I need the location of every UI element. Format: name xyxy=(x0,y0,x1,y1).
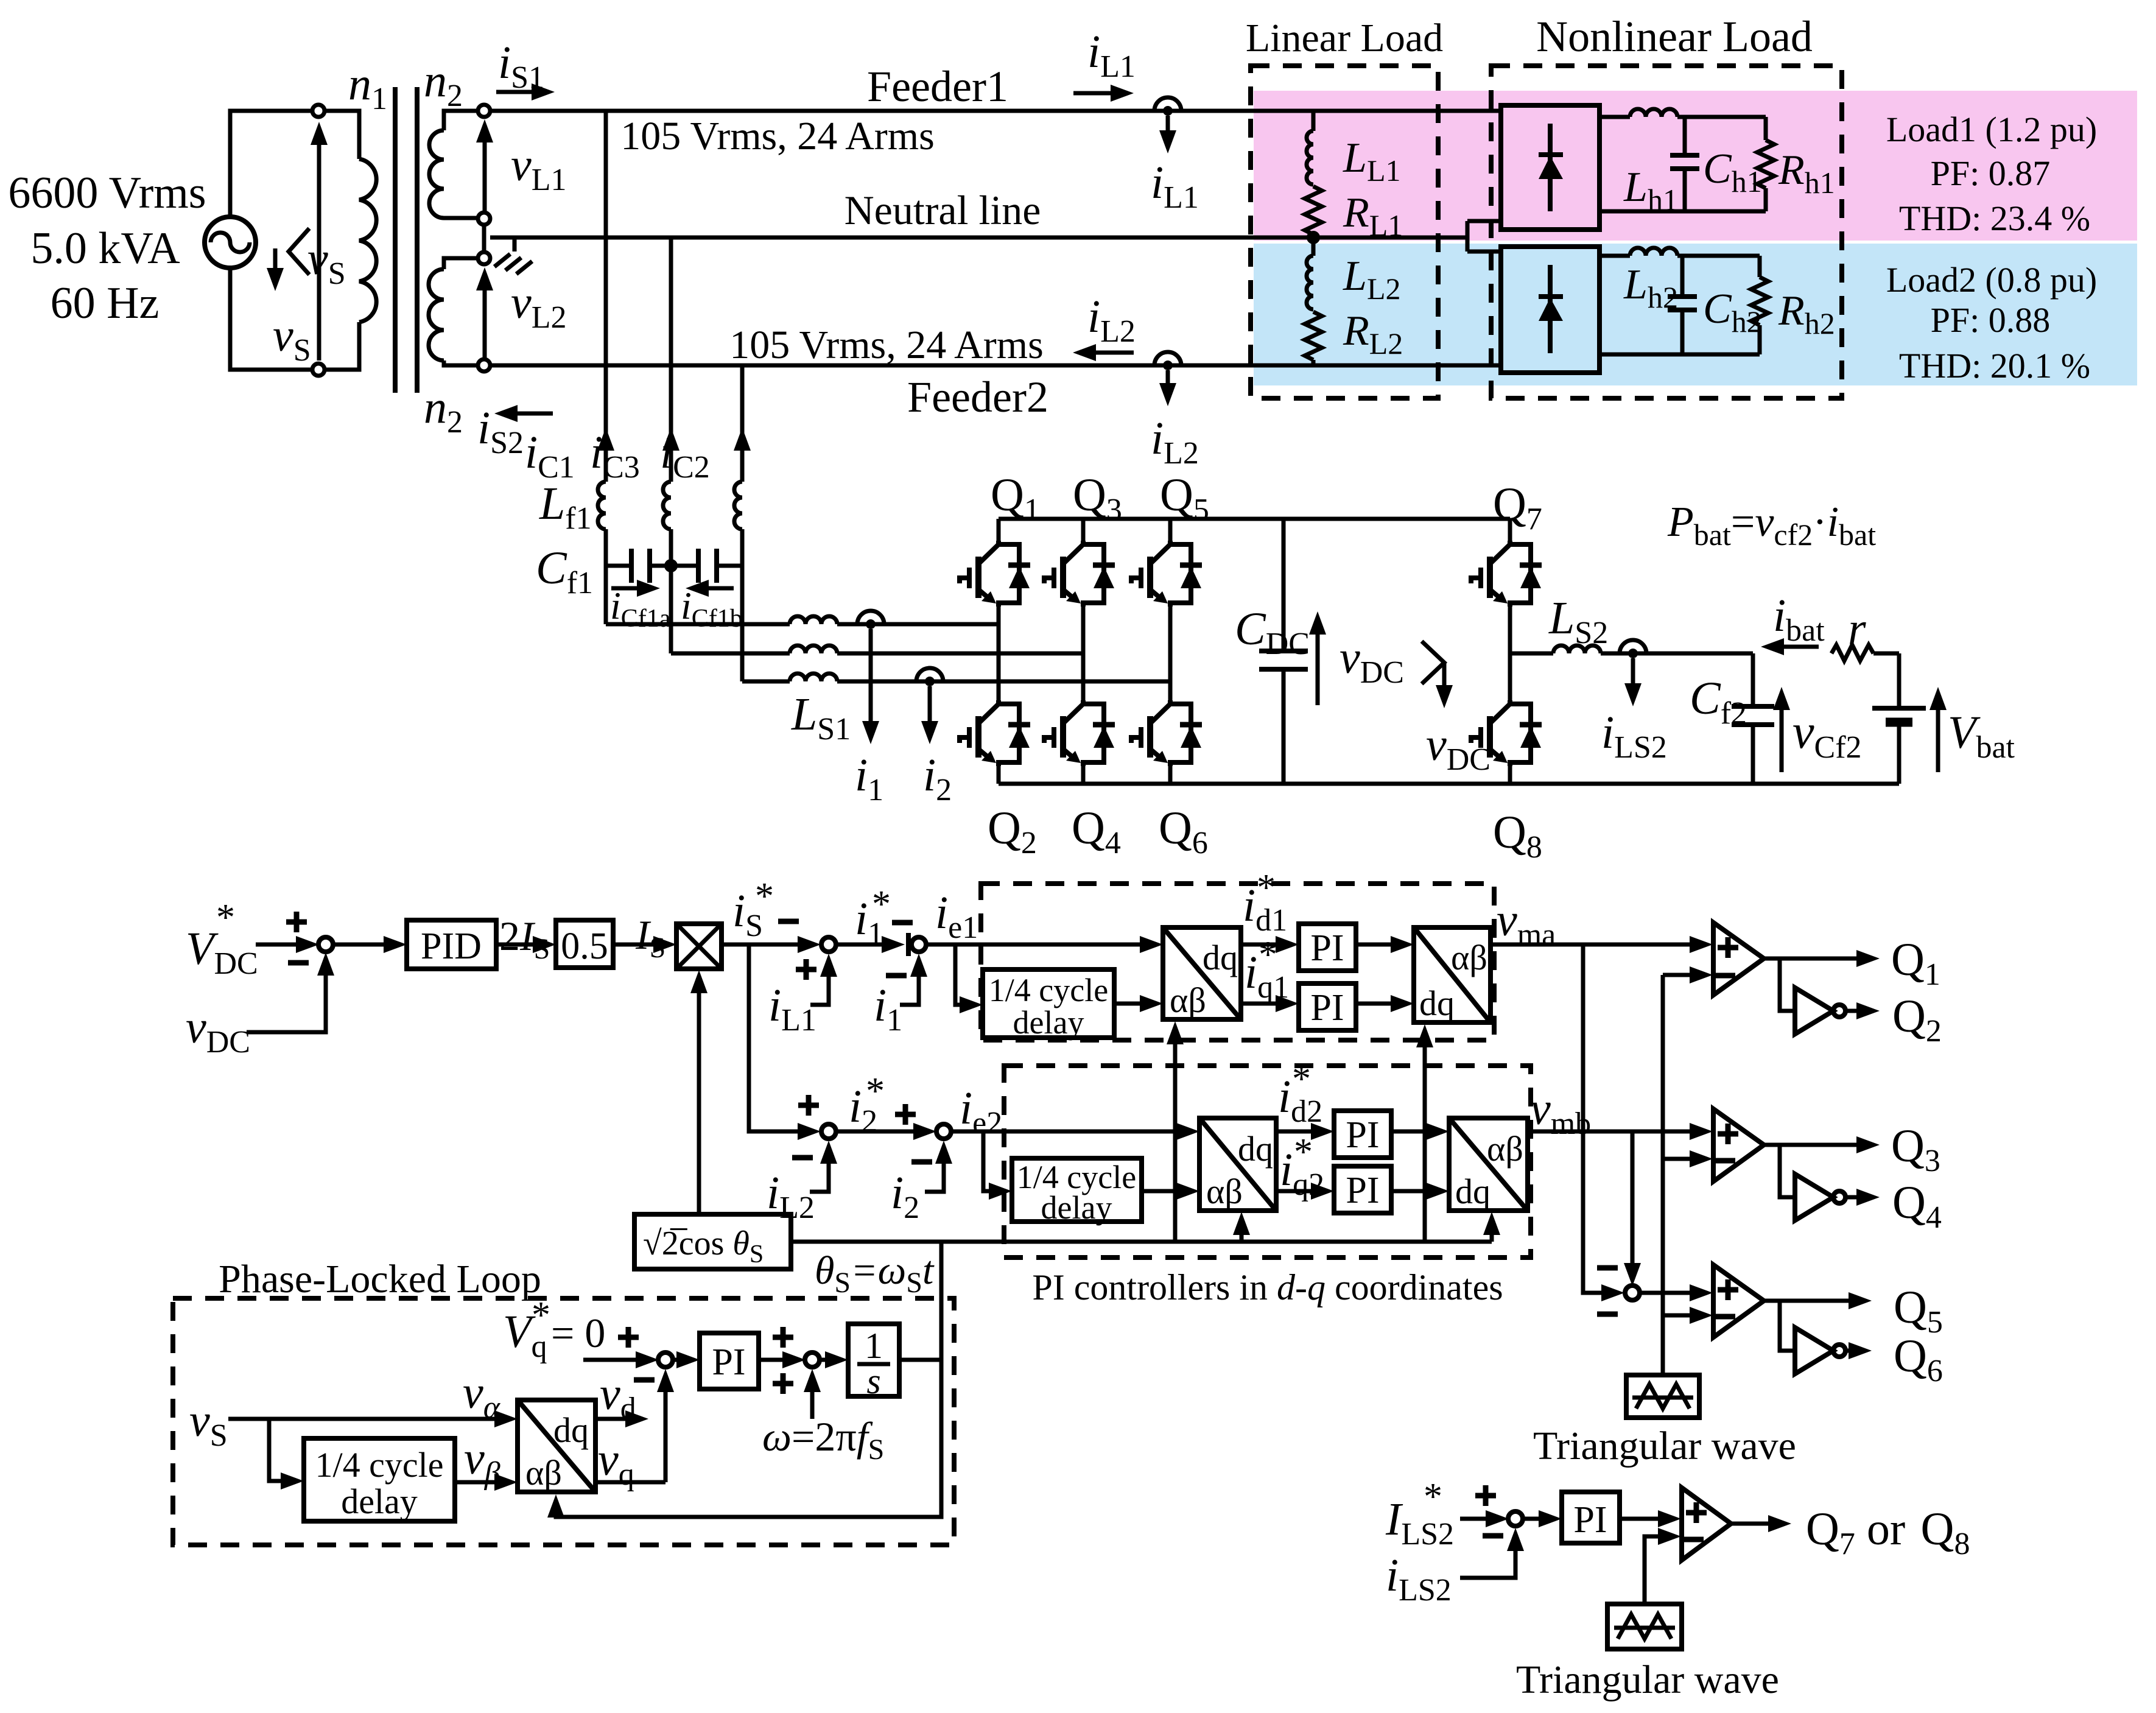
wire Vq* to PLL sum1 xyxy=(583,1358,637,1362)
Nonlinear Load dashed box xyxy=(1491,66,1842,398)
block 1/4 cycle delay ch2 xyxy=(1012,1158,1142,1222)
branch to delay1 xyxy=(955,944,961,1005)
svg-text:6600 Vrms: 6600 Vrms xyxy=(8,168,206,218)
wire 1/s out to riser xyxy=(899,1358,941,1362)
igbt Q2 xyxy=(960,700,1030,766)
inductor Lh2 xyxy=(1630,248,1677,256)
svg-text:√2̅cos θS: √2̅cos θS xyxy=(643,1225,764,1268)
capacitor Cf2 xyxy=(1751,653,1755,784)
NOT gate 3 xyxy=(1795,1328,1845,1374)
iS2 arrow xyxy=(516,412,553,416)
svg-text:*: * xyxy=(1257,867,1276,909)
svg-text:ω=2πfS: ω=2πfS xyxy=(762,1413,884,1466)
sum junction ch2a xyxy=(821,1124,836,1139)
svg-text:αβ: αβ xyxy=(525,1453,562,1493)
resistor RL1 xyxy=(1305,186,1322,234)
plus tick on wire xyxy=(906,933,911,956)
iL2 arrow xyxy=(1095,351,1134,355)
svg-text:dq: dq xyxy=(1203,938,1238,977)
iL1 arrow xyxy=(1073,91,1112,96)
inductor LL2 xyxy=(1307,256,1313,309)
iCf1a arrow xyxy=(611,586,638,591)
plus sign PLL sum2 bottom xyxy=(773,1373,793,1394)
sqrt2 cos block xyxy=(634,1214,791,1269)
load1 top wire xyxy=(1599,115,1630,119)
minus sign i1 xyxy=(886,975,907,976)
wire ie1 to dq box xyxy=(925,943,1141,947)
plus sign iL1 xyxy=(796,959,816,980)
svg-text:s: s xyxy=(866,1361,880,1401)
diode D1 xyxy=(1548,124,1553,211)
svg-text:dq: dq xyxy=(1455,1172,1491,1211)
svg-text:Load2 (0.8 pu): Load2 (0.8 pu) xyxy=(1886,260,2097,300)
vS arrow on primary xyxy=(317,131,321,361)
svg-text:*: * xyxy=(1294,1131,1313,1173)
transformer primary winding n1 xyxy=(325,111,359,159)
ch2 branch wire down xyxy=(749,944,799,1131)
transformer core xyxy=(395,87,417,393)
wire sum to PID xyxy=(332,943,385,947)
minus sign iLS2 xyxy=(1483,1535,1503,1536)
svg-text:1/4 cycle: 1/4 cycle xyxy=(315,1445,444,1485)
svg-text:Triangular wave: Triangular wave xyxy=(1516,1658,1779,1702)
comparator 3 xyxy=(1713,1265,1764,1337)
wire dq2 to PI q2 xyxy=(1276,1189,1312,1194)
sum junction ILS2 xyxy=(1508,1511,1523,1526)
junction Cf1 mid xyxy=(664,559,678,572)
rectifier box 1 xyxy=(1501,105,1599,230)
svg-text:60 Hz: 60 Hz xyxy=(51,278,160,328)
ab/dq transform ch1 xyxy=(1414,927,1491,1023)
dashed box PI d-q ch2 xyxy=(1004,1066,1531,1257)
comparator3 output to Q5 xyxy=(1764,1299,1850,1303)
neutral junction node xyxy=(1307,231,1320,244)
block 1/4 cycle delay PLL xyxy=(304,1438,455,1521)
wire PI to comparator4 xyxy=(1620,1517,1659,1521)
branch to delay2 xyxy=(983,1131,990,1191)
wire source loop xyxy=(230,111,313,370)
ac source VS (6600 V) xyxy=(205,217,256,268)
transformer secondary winding B n2 xyxy=(444,258,478,269)
vmb branch down xyxy=(1631,1131,1635,1264)
inductor Lh1 xyxy=(1630,109,1677,117)
transformer secondary winding A n2 xyxy=(444,111,478,130)
svg-text:Phase-Locked Loop: Phase-Locked Loop xyxy=(219,1257,541,1301)
wire leg4 mid to LS2 xyxy=(1510,652,1553,656)
phasor angle mark vS xyxy=(289,228,309,275)
branch to NOT2 xyxy=(1780,1145,1795,1197)
minus sign i2 xyxy=(911,1161,932,1163)
svg-text:αβ: αβ xyxy=(1206,1172,1243,1211)
capacitor Cf1b xyxy=(671,564,742,568)
Neutral wire xyxy=(490,236,1467,240)
wire cos to multiplier xyxy=(697,977,701,1214)
plus sign PLL sum2 top xyxy=(773,1327,793,1348)
sum junction PLL 1 xyxy=(658,1352,673,1367)
wire PI q1 to ab/dq xyxy=(1356,1002,1392,1006)
inductor Lf1 on line1 xyxy=(598,482,606,529)
theta arrow into dq ch1 xyxy=(1173,1029,1178,1242)
capacitor Ch1 xyxy=(1683,117,1687,211)
igbt Q5 xyxy=(1131,541,1202,607)
minus sign PLL sum1 xyxy=(634,1379,655,1381)
Vbat arrow xyxy=(1936,695,1940,772)
branch to NOT1 xyxy=(1780,959,1795,1011)
filter branch line 1 (from Feeder1) xyxy=(604,111,608,482)
sum junction PLL 2 xyxy=(805,1352,820,1367)
block 0.5 xyxy=(556,920,613,968)
svg-text:Q7 or Q8: Q7 or Q8 xyxy=(1806,1504,1970,1561)
vL2 arrow xyxy=(483,273,487,358)
dq/ab transform ch2 xyxy=(1199,1118,1276,1211)
wire PI d2 to ab/dq2 xyxy=(1391,1130,1427,1134)
vCf2 arrow xyxy=(1780,695,1784,772)
resistor RL2 xyxy=(1305,312,1322,360)
primary terminal top xyxy=(312,105,325,117)
svg-text:PI: PI xyxy=(1310,927,1344,969)
theta S riser from PLL xyxy=(939,1242,944,1362)
NOT gate 1 xyxy=(1795,988,1845,1034)
current sensor i1 xyxy=(857,611,884,629)
comparator 2 xyxy=(1713,1109,1764,1181)
load1 bottom wire xyxy=(1599,209,1766,214)
dc link capacitor CDC xyxy=(1282,519,1286,784)
svg-text:*: * xyxy=(872,884,891,925)
iS1 arrow xyxy=(496,90,533,94)
svg-text:PI: PI xyxy=(1346,1170,1379,1211)
svg-text:1/4 cycle: 1/4 cycle xyxy=(989,972,1108,1008)
svg-text:r: r xyxy=(1848,603,1866,655)
filter branch line 3 (from Feeder2) xyxy=(740,365,745,482)
svg-text:αβ: αβ xyxy=(1487,1129,1523,1169)
linear load branch 1: wire xyxy=(1312,111,1316,131)
capacitor Ch2 xyxy=(1680,256,1685,354)
inductor LS2 xyxy=(1553,645,1601,653)
svg-text:PI: PI xyxy=(1346,1114,1379,1156)
iL1 input elbow xyxy=(810,960,829,1005)
wire delay to dq PLL xyxy=(455,1480,496,1485)
vq feedback riser xyxy=(664,1375,668,1482)
sum junction ch2b xyxy=(936,1124,951,1139)
svg-text:THD: 23.4 %: THD: 23.4 % xyxy=(1899,199,2090,238)
wire multiplier to sum1 xyxy=(722,943,799,947)
pink highlight band Load1 xyxy=(1254,91,2137,241)
vd output arrow xyxy=(595,1417,627,1421)
secondary terminals xyxy=(478,105,490,117)
svg-text:Feeder2: Feeder2 xyxy=(907,373,1048,421)
wire vmb to comparator2 xyxy=(1528,1130,1691,1134)
dashed box PI d-q ch1 xyxy=(981,884,1494,1040)
load2 bottom wire xyxy=(1599,353,1760,357)
wire 0.5 to multiplier xyxy=(613,943,655,947)
block PI PLL xyxy=(700,1333,759,1389)
svg-text:= 0: = 0 xyxy=(551,1310,605,1356)
block 1/4 cycle delay ch1 xyxy=(983,969,1114,1038)
svg-text:dq: dq xyxy=(553,1410,589,1450)
vL1 arrow xyxy=(483,125,487,212)
wire dq to PI q1 xyxy=(1241,1002,1277,1006)
i2 input elbow xyxy=(925,1147,944,1192)
phase wire row1 xyxy=(606,622,790,627)
wire vDC feedback xyxy=(247,960,326,1032)
svg-text:αβ: αβ xyxy=(1451,938,1487,977)
iLS2 input elbow xyxy=(1460,1534,1515,1578)
iC3 arrow xyxy=(662,427,679,451)
svg-text:Feeder1: Feeder1 xyxy=(867,62,1008,111)
wire ie2 to dq box ch2 xyxy=(950,1130,1178,1134)
wire delay1 to dq xyxy=(1114,1002,1141,1006)
vDC sense hook xyxy=(1422,641,1444,700)
svg-text:*: * xyxy=(1292,1058,1311,1100)
wire dq to PI d1 xyxy=(1241,943,1277,947)
svg-text:dq: dq xyxy=(1419,983,1455,1023)
inductor LL1 xyxy=(1307,131,1313,185)
ab/dq transform ch2 xyxy=(1449,1118,1528,1211)
sum junction DC xyxy=(318,937,333,952)
svg-text:*: * xyxy=(755,876,774,917)
wire dq2 to PI d2 xyxy=(1276,1130,1312,1134)
multiplier block xyxy=(676,924,722,969)
svg-text:Nonlinear Load: Nonlinear Load xyxy=(1536,12,1813,61)
i1 input elbow xyxy=(900,960,919,1005)
plus sign before ch2b xyxy=(895,1104,916,1125)
vDC arrow xyxy=(1316,620,1320,705)
PLL feedback loop xyxy=(556,1360,941,1517)
wire sum1 to sum2 xyxy=(835,943,889,947)
NOT gate 2 xyxy=(1795,1174,1845,1220)
theta arrow into dq ch2 xyxy=(1240,1219,1244,1242)
iL2 current sensor xyxy=(1154,352,1181,370)
filter branch line 2 (from Neutral) xyxy=(669,237,673,482)
block PI q1 xyxy=(1299,983,1356,1030)
wire VDC* to sum xyxy=(256,943,297,947)
wire PI d1 to ab/dq xyxy=(1356,943,1392,947)
wire vma to comparator1 xyxy=(1491,943,1691,947)
current sensor i2 xyxy=(916,668,943,686)
sum junction ch1a xyxy=(821,937,836,952)
theta S line xyxy=(791,1240,1492,1244)
plus sign PLL sum1 xyxy=(618,1327,639,1348)
iL2 input elbow xyxy=(810,1147,829,1192)
leg1 wires xyxy=(997,519,1001,784)
wire PI q2 to ab/dq2 xyxy=(1391,1189,1427,1194)
ibat arrow xyxy=(1783,645,1819,649)
igbt Q4 xyxy=(1044,700,1115,766)
iC2 arrow xyxy=(734,427,751,451)
PLL dashed box xyxy=(173,1298,954,1545)
svg-text:*: * xyxy=(216,897,235,938)
wire delay2 to dq ch2 xyxy=(1142,1189,1178,1194)
minus at DC sum xyxy=(288,962,309,963)
vma branch down xyxy=(1583,944,1603,1293)
minus sign before sum2 xyxy=(892,922,913,923)
svg-text:dq: dq xyxy=(1238,1129,1273,1169)
minus sign vma into sub xyxy=(1597,1267,1618,1268)
igbt Q3 xyxy=(1044,541,1115,607)
wire sum1 to PLL PI xyxy=(672,1358,678,1362)
dq/ab transform PLL xyxy=(518,1400,595,1493)
tri branch comp3 xyxy=(1663,1314,1691,1318)
neutral jog to rectifiers xyxy=(1467,221,1501,251)
igbt Q8 xyxy=(1471,700,1542,766)
leg2 wires xyxy=(1081,519,1086,784)
triangular wave box 2 xyxy=(1607,1604,1682,1649)
current sensor iLS2 xyxy=(1620,640,1646,658)
comparator 1 xyxy=(1713,923,1764,995)
block PI bat xyxy=(1562,1492,1620,1543)
svg-text:PF: 0.88: PF: 0.88 xyxy=(1931,300,2051,340)
DC bottom bus xyxy=(999,782,1899,786)
wire center tap xyxy=(482,225,486,252)
svg-text:*: * xyxy=(1259,934,1277,976)
block PI q2 xyxy=(1334,1166,1391,1213)
leg3 wires xyxy=(1168,519,1173,784)
wire sum2 to 1/s xyxy=(819,1358,826,1362)
svg-text:αβ: αβ xyxy=(1170,980,1206,1020)
theta arrow into ab/dq ch1 xyxy=(1423,1032,1427,1242)
block PI d2 xyxy=(1334,1111,1391,1158)
block PID xyxy=(407,920,496,969)
comparator4 output xyxy=(1731,1522,1769,1526)
svg-text:Triangular wave: Triangular wave xyxy=(1533,1424,1796,1468)
svg-text:Neutral line: Neutral line xyxy=(844,187,1041,233)
vq output wire xyxy=(595,1480,665,1485)
igbt Q1 xyxy=(960,541,1030,607)
branch to NOT3 xyxy=(1780,1301,1795,1351)
svg-text:PI: PI xyxy=(1310,987,1344,1029)
phase wire row2 xyxy=(671,652,790,656)
plus sign ch2a xyxy=(798,1095,819,1116)
tri wave 2 input xyxy=(1645,1536,1659,1604)
iCf1b arrow xyxy=(708,586,734,591)
igbt Q7 xyxy=(1471,541,1542,607)
resistor Rh2 xyxy=(1758,256,1762,277)
tri branch comp2 xyxy=(1663,1157,1691,1161)
comparator2 output to Q3 xyxy=(1764,1143,1858,1147)
triangular wave riser xyxy=(1661,975,1665,1375)
wire sum to PI bat xyxy=(1522,1517,1540,1521)
wire vS to dq xyxy=(228,1417,496,1421)
iC1 arrow xyxy=(597,427,614,451)
minus sign iL2 xyxy=(792,1157,813,1158)
svg-text:Linear Load: Linear Load xyxy=(1246,16,1443,60)
rectifier box 2 xyxy=(1501,247,1599,373)
svg-text:*: * xyxy=(866,1071,885,1112)
svg-text:PI: PI xyxy=(712,1342,745,1383)
theta riser into ab/dq ch2 xyxy=(1490,1219,1494,1242)
sum junction ch1b xyxy=(911,937,926,952)
comparator1 output to Q1 xyxy=(1764,957,1858,961)
primary terminal bottom xyxy=(312,364,325,376)
svg-text:*: * xyxy=(532,1295,550,1336)
svg-text:*: * xyxy=(1424,1476,1442,1518)
block PI d1 xyxy=(1299,924,1356,971)
blue highlight band Load2 xyxy=(1254,244,2137,385)
inductor Lf1 on line3 xyxy=(734,482,742,529)
plus sign ILS2 xyxy=(1475,1485,1496,1506)
minus sign vmb into sub xyxy=(1597,1314,1618,1315)
Feeder2 wire xyxy=(490,364,1501,368)
dq/ab transform ch1 xyxy=(1163,927,1241,1020)
omega feed arrow xyxy=(810,1375,815,1419)
diode D2 xyxy=(1548,265,1553,353)
svg-text:1: 1 xyxy=(865,1326,883,1366)
inductor Lf1 on line2 xyxy=(663,482,671,529)
wire ch2a to ch2b xyxy=(835,1130,915,1134)
svg-text:PI controllers in d-q coordina: PI controllers in d-q coordinates xyxy=(1032,1267,1503,1307)
svg-text:Load1 (1.2 pu): Load1 (1.2 pu) xyxy=(1886,110,2097,149)
triangular wave box 1 xyxy=(1626,1375,1699,1418)
leg4 wires xyxy=(1508,519,1512,784)
load2 top wire xyxy=(1599,254,1630,258)
svg-text:0.5: 0.5 xyxy=(561,926,608,967)
wire PI to PLL sum2 xyxy=(759,1358,784,1362)
plus at DC sum xyxy=(286,912,307,932)
svg-text:105 Vrms, 24 Arms: 105 Vrms, 24 Arms xyxy=(620,114,935,158)
svg-text:delay: delay xyxy=(1041,1189,1112,1226)
svg-text:THD: 20.1 %: THD: 20.1 % xyxy=(1899,346,2090,385)
linear load branch 2: wire xyxy=(1312,237,1316,256)
block 1/s xyxy=(848,1324,899,1396)
svg-text:delay: delay xyxy=(1013,1004,1084,1041)
svg-text:105 Vrms, 24 Arms: 105 Vrms, 24 Arms xyxy=(729,323,1044,367)
Feeder1 wire xyxy=(490,109,1501,113)
igbt Q6 xyxy=(1131,700,1202,766)
sum junction vma-vmb xyxy=(1625,1286,1640,1300)
wire PID to 0.5 xyxy=(496,943,534,947)
svg-text:delay: delay xyxy=(341,1482,418,1521)
battery Vbat xyxy=(1897,653,1901,784)
minus sign before sum1 xyxy=(778,921,799,922)
wire ILS2* to sum xyxy=(1460,1517,1487,1521)
phase wire row3 xyxy=(742,680,790,684)
svg-text:PI: PI xyxy=(1573,1499,1607,1541)
capacitor Cf1a xyxy=(606,564,671,568)
resistor r xyxy=(1831,645,1873,661)
svg-text:5.0 kVA: 5.0 kVA xyxy=(30,223,180,273)
svg-text:PF: 0.87: PF: 0.87 xyxy=(1931,153,2051,193)
comparator 4 xyxy=(1682,1488,1731,1560)
Linear Load dashed box xyxy=(1251,66,1438,398)
DC top bus xyxy=(999,517,1510,521)
wire sub out to comparator3 xyxy=(1639,1291,1691,1295)
resistor Rh1 xyxy=(1764,117,1768,140)
branch to delay PLL xyxy=(269,1419,282,1481)
ground symbol xyxy=(513,237,517,251)
tri branch comp1 xyxy=(1663,973,1691,977)
svg-text:PID: PID xyxy=(421,926,482,967)
iL1 current sensor xyxy=(1154,97,1181,116)
